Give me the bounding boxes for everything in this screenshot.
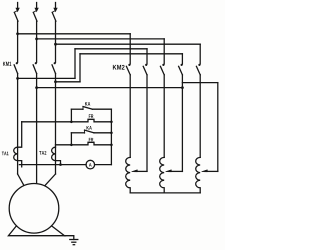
wire relay right rail x111.4 xyxy=(110,109,112,164)
contactor KM2 contact 3 xyxy=(162,64,164,66)
contactor KM2 contact 4 xyxy=(181,64,183,66)
wire branch y82.6 to tap3 riser xyxy=(182,82,217,84)
contactor KM2 contact 5 xyxy=(198,64,200,66)
thermal relay FR lower label xyxy=(89,138,94,142)
motor M circle xyxy=(9,184,59,234)
wire phase L2 QS to KM1 xyxy=(36,21,38,62)
winding 2 tap arrow xyxy=(169,170,183,172)
node feeder1 tap xyxy=(16,77,19,80)
wire feeder1 horizontal y78.4 xyxy=(18,77,75,79)
node bus1 tap on L1 xyxy=(16,32,19,35)
wire contact1 bottom to winding1 coil xyxy=(129,75,131,158)
thermal relay FR2 heater element xyxy=(71,142,111,145)
contactor KM2 contact 2 xyxy=(145,64,147,66)
wire feeder3 horizontal y81.8 xyxy=(56,81,81,83)
disconnect switch QS pole 2 xyxy=(35,8,38,12)
contactor KM2 contact 1 xyxy=(128,64,130,66)
winding 1 tap arrow xyxy=(135,170,148,172)
wire ammeter line right xyxy=(95,164,112,166)
relay contact KA upper label xyxy=(85,102,90,106)
node bus2 tap on L2 xyxy=(35,38,38,41)
wire bus2 drop to KM2 contact 3 xyxy=(163,39,165,64)
node block2 left tee xyxy=(70,144,73,147)
node TA2 joins ammeter wire xyxy=(59,163,62,166)
node rail FR1 tee xyxy=(110,121,113,124)
node block1 left tee xyxy=(70,121,73,124)
wire phase L2 below KM1 xyxy=(36,74,38,184)
wire winding star bus xyxy=(130,192,200,194)
wire feeder1 horizontal y48.8 xyxy=(75,48,147,50)
wire motor lead 1 xyxy=(18,174,24,185)
winding 3 coil xyxy=(196,157,201,193)
wire phase L2 incoming top xyxy=(36,3,38,10)
relay contact KA1 branch xyxy=(71,108,83,110)
winding 1 coil xyxy=(126,157,131,193)
wire bus3 horizontal y44.2 xyxy=(56,43,201,45)
winding 3 tap arrow xyxy=(205,170,218,172)
wire contact5 bottom to winding3 coil xyxy=(199,75,201,158)
wire feeder3 riser x81.2 xyxy=(79,54,81,82)
wire contact2 bottom to winding1 tap xyxy=(146,75,148,172)
wire bus3 drop to KM2 contact 5 xyxy=(199,44,201,64)
node feeder3 tap xyxy=(54,80,57,83)
contactor KM1 contact pole 2 xyxy=(35,62,37,64)
wire TA1 secondary top stub xyxy=(18,122,22,147)
contactor KM1 label xyxy=(3,62,11,66)
wire TA2 secondary top to relay block2 y144.8 xyxy=(56,144,72,146)
wire ammeter line left xyxy=(19,164,86,166)
node feeder2 tap xyxy=(35,86,38,89)
current transformer TA1 coil xyxy=(14,147,18,160)
wire bus2 horizontal y38.9 xyxy=(37,38,165,40)
thermal relay FR upper label xyxy=(89,114,94,118)
wire phase L3 below KM1 xyxy=(55,74,57,175)
node rail FR2 tee xyxy=(110,144,113,147)
disconnect switch QS pole 1 xyxy=(16,8,19,12)
wire phase L1 QS to KM1 xyxy=(17,21,19,62)
wire TA1 secondary bottom stub xyxy=(18,161,22,167)
thermal relay FR1 heater element xyxy=(71,119,111,122)
wire pedestal to ground xyxy=(65,236,74,240)
relay block2 left rail xyxy=(70,133,72,145)
wire contact4 bottom to winding2 tap xyxy=(181,75,183,172)
wire bus1 horizontal y33.8 xyxy=(18,33,131,35)
ground symbol xyxy=(70,239,78,241)
wire phase L1 below KM1 xyxy=(17,74,19,175)
wire feeder1 drop to KM2 contact 2 xyxy=(146,49,148,64)
relay block1 left rail xyxy=(70,109,72,122)
node feeder2 joins contact4 column xyxy=(181,86,184,89)
winding 2 coil xyxy=(160,157,165,193)
motor pedestal xyxy=(8,226,64,236)
disconnect switch QS pole 3 xyxy=(54,8,57,12)
wire feeder3 horizontal y53.8 xyxy=(80,53,182,55)
wire feeder3 drop to KM2 contact 4 xyxy=(181,54,183,64)
wire TA2 secondary bottom stub xyxy=(56,161,61,165)
wire phase L3 QS to KM1 xyxy=(55,21,57,62)
wire motor lead 3 xyxy=(45,174,56,186)
current transformer TA1 label xyxy=(2,152,9,156)
contactor KM1 contact pole 1 xyxy=(16,62,18,64)
wire tap3 riser drop xyxy=(217,83,219,172)
wire bus1 drop to KM2 contact 1 xyxy=(129,34,131,64)
wire phase L1 incoming top xyxy=(17,3,19,10)
contactor KM2 label xyxy=(113,65,125,70)
wire phase L3 incoming top xyxy=(55,3,57,10)
contactor KM1 contact pole 3 xyxy=(54,62,56,64)
current transformer TA2 coil xyxy=(52,147,56,160)
current transformer TA2 label xyxy=(39,151,46,155)
ammeter A xyxy=(86,160,95,169)
node bus3 tap on L3 xyxy=(54,43,57,46)
relay contact KA2 branch xyxy=(71,132,84,134)
relay contact KA lower label xyxy=(87,126,92,130)
wire feeder1 riser x75 xyxy=(74,49,76,79)
wire feeder2 horizontal y87.6 xyxy=(37,87,183,89)
wire TA1 secondary to relay block1 y121.8 xyxy=(22,121,72,123)
wire contact3 bottom to winding2 coil xyxy=(163,75,165,158)
node rail KA2 tee xyxy=(110,132,113,135)
